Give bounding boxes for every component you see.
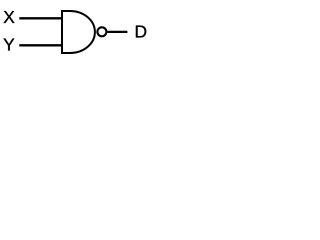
nand-gate U1 body: [62, 11, 95, 53]
svg-text:D: D: [135, 21, 148, 41]
svg-text:Y: Y: [3, 34, 15, 54]
nand-gate U1 inversion bubble: [97, 27, 106, 36]
svg-text:X: X: [3, 7, 15, 27]
wire bubble to output D: [108, 31, 128, 33]
wire input X to gate: [19, 17, 62, 19]
wire input Y to gate: [19, 44, 62, 46]
